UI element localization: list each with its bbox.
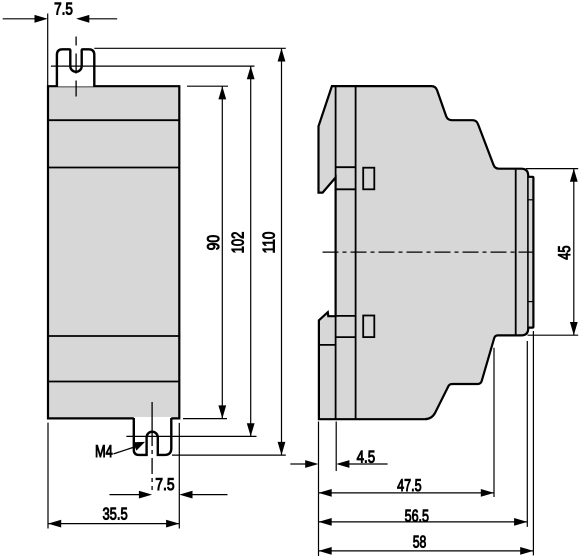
extension line x=179.3 bottom right — [178, 423, 180, 529]
dimension 35.5 arrow right — [166, 520, 179, 528]
dimension 102 line — [250, 66, 252, 436]
dimension 7.5 top dim line left — [3, 18, 35, 20]
dimension 7.5 top arrow right — [76, 15, 89, 23]
dimension 7.5 bottom dim line right — [192, 494, 228, 496]
dimension 7.5 bottom arrow right — [179, 491, 192, 499]
bottom flange seam line — [319, 344, 336, 346]
dimension 56.5 arrow right — [514, 518, 527, 526]
dimension 47.5 arrow right — [481, 489, 494, 497]
svg-text:7.5: 7.5 — [155, 475, 174, 494]
svg-text:110: 110 — [260, 232, 279, 254]
dimension 4.5 dim line left — [290, 463, 306, 465]
dimension 45 extension top — [526, 168, 578, 170]
extension line x=48 bottom left — [47, 423, 49, 529]
rail groove top line 2 — [336, 188, 356, 190]
dimension 45 arrow top — [570, 169, 578, 182]
svg-text:35.5: 35.5 — [102, 504, 127, 523]
extension line y=86.2 (90 top) — [187, 85, 228, 87]
svg-text:102: 102 — [229, 232, 248, 254]
dimension 7.5 top dim line right — [89, 18, 117, 20]
side view inner vertical line x=355.6 — [355, 86, 357, 419]
extension line y=48.3 (110 top) — [94, 47, 285, 49]
latch rectangle top — [363, 168, 374, 190]
dimension 56.5 arrow left — [319, 518, 332, 526]
dimension 4.5 arrow left — [305, 460, 318, 468]
dimension 56.5 line — [319, 521, 528, 523]
dimension 45 extension bottom — [528, 334, 579, 336]
front view divider line 2 — [48, 167, 179, 169]
dimension 4.5 arrow right — [336, 460, 349, 468]
side view outer profile — [319, 86, 534, 419]
extension line x=494 (47.5 right) — [493, 348, 495, 497]
bottom mounting tab with M4 slot — [134, 418, 172, 455]
front view body outline — [48, 86, 179, 418]
dimension 45 arrow bottom — [570, 322, 578, 335]
front view body — [48, 86, 179, 418]
front view divider line 3 — [48, 335, 179, 337]
dimension 47.5 line — [319, 492, 495, 494]
extension line x=533.4 (58 right) — [532, 331, 534, 555]
dimension 35.5 arrow left — [48, 520, 61, 528]
dimension 4.5 dim line right — [349, 463, 388, 465]
extension line y=436.4 (102 bottom) — [126, 435, 256, 437]
front view divider line 4 — [48, 381, 179, 383]
svg-text:7.5: 7.5 — [54, 0, 73, 18]
dimension 90 arrow top — [218, 86, 226, 99]
dimension 58 arrow right — [520, 547, 533, 555]
extension line x=318.5 (left of side view dims) — [318, 422, 320, 557]
latch rectangle bottom — [363, 316, 374, 338]
dimension 7.5 bottom dim line left — [110, 494, 140, 496]
svg-text:M4: M4 — [95, 442, 113, 461]
top tab centerline — [75, 37, 77, 97]
dimension 102 arrow bottom — [247, 423, 255, 436]
M4 leader arrowhead — [133, 442, 145, 451]
dimension 47.5 arrow left — [319, 489, 332, 497]
side view horizontal centerline — [323, 251, 539, 253]
extension line y=66.1 (102 top) — [51, 65, 255, 67]
dimension 58 line — [319, 550, 534, 552]
bezel tick top — [528, 199, 534, 201]
dimension 7.5 top extension line — [47, 14, 49, 89]
top mounting tab with slot — [57, 49, 94, 86]
extension line y=418.6 (90 bottom) — [183, 418, 227, 420]
dimension 110 arrow bottom — [278, 442, 286, 455]
front section divider vertical — [515, 170, 517, 336]
svg-text:47.5: 47.5 — [397, 476, 422, 495]
dimension 45 line — [573, 169, 575, 336]
svg-text:56.5: 56.5 — [405, 506, 429, 525]
extension line x=336.2 (4.5 right) — [335, 422, 337, 472]
svg-text:58: 58 — [413, 532, 427, 551]
svg-text:4.5: 4.5 — [357, 447, 376, 466]
extension line x=527.3 (56.5 right) — [526, 341, 528, 527]
front view divider line 1 — [48, 119, 179, 121]
extension line y=455.1 (110 bottom) — [172, 454, 286, 456]
dimension 110 arrow top — [278, 48, 286, 61]
dimension 90 line — [221, 86, 223, 418]
bottom tab centerline — [151, 402, 153, 490]
dimension 35.5 line — [48, 523, 179, 525]
dimension 110 line — [281, 48, 283, 455]
dimension 7.5 bottom arrow left — [139, 491, 152, 499]
rail groove bottom line 1 — [336, 315, 356, 317]
svg-text:90: 90 — [204, 235, 223, 251]
rail groove top line 1 — [336, 166, 356, 168]
side view inner vertical line x=335.6 — [335, 86, 337, 419]
svg-text:45: 45 — [555, 245, 574, 259]
M4 leader line — [114, 446, 140, 454]
dimension 90 arrow bottom — [218, 405, 226, 418]
bezel tick bottom — [528, 301, 534, 303]
dimension 7.5 top arrow left — [35, 15, 48, 23]
bezel inner vertical — [527, 177, 529, 327]
dimension 102 arrow top — [247, 66, 255, 79]
dimension 58 arrow left — [319, 547, 332, 555]
rail groove bottom line 2 — [336, 336, 356, 338]
